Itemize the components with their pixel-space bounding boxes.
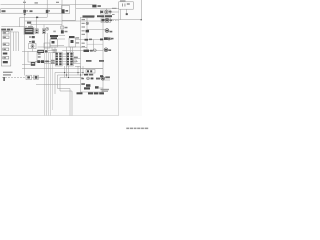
- C1 stub: [32, 49, 34, 52]
- connector pair B: [42, 29, 45, 34]
- fusible link box: [62, 6, 70, 14]
- tick on W-B wire: [24, 14, 26, 16]
- label FL: [66, 10, 69, 12]
- radio player box: [1, 31, 11, 66]
- connector on x62: [61, 26, 64, 29]
- connector strip B cells: [67, 53, 69, 55]
- dash x112 y7.8: [112, 8, 117, 9]
- wire label x75 y37: [76, 37, 80, 38]
- text x86 y60: [86, 60, 92, 62]
- wire heater dash: [110, 20, 119, 22]
- pressure sw inner box: [86, 70, 95, 74]
- amp1 output stubs: [52, 47, 55, 52]
- wire h y52.5: [48, 52, 55, 54]
- text right of compressor: [105, 76, 110, 78]
- note text row1: [3, 72, 13, 73]
- wire h y39.5: [76, 39, 113, 41]
- connector bottom of relay box: [31, 62, 35, 66]
- connector blob x61 y31: [61, 30, 64, 33]
- amp1 inner: [52, 41, 55, 44]
- blob x36 y16.5: [36, 17, 38, 19]
- bottom caption words: [126, 128, 129, 130]
- junction right: [141, 19, 143, 20]
- ecu blob: [25, 28, 34, 34]
- wire vertical right of FL: [62, 0, 76, 20]
- connector row y50-53: [37, 50, 44, 53]
- ground dot: [126, 13, 128, 15]
- connector box C1: [29, 44, 37, 49]
- capacitor core: [35, 76, 38, 79]
- a/c internal line y47.3: [81, 46, 88, 48]
- faint gray texts: [3, 2, 148, 129]
- radio inner box3: [3, 43, 9, 46]
- wire into relay box: [22, 51, 28, 53]
- a/c amp2 title: [69, 36, 75, 38]
- radio inner box5: [3, 57, 9, 60]
- a/c box header line: [81, 17, 95, 19]
- blob right edge of box: [100, 75, 103, 77]
- wire y12 right: [110, 11, 119, 13]
- heater row1 outline: [101, 10, 111, 14]
- motor in C1: [31, 45, 34, 48]
- diode D2: [32, 41, 35, 43]
- diode D1: [32, 36, 35, 38]
- fan motor M2: [105, 29, 109, 33]
- wire h y84.5: [36, 84, 81, 86]
- capacitor box outline: [34, 75, 39, 79]
- small box right: [73, 60, 76, 62]
- a/c amp no2 box: [69, 38, 76, 47]
- ignition relay box: [119, 2, 134, 9]
- wire horizontal y8.6: [76, 8, 119, 10]
- wire relay to bus: [120, 9, 122, 20]
- blower motor M1: [105, 18, 109, 22]
- connector box mid: [44, 43, 50, 48]
- fuse F3: [62, 9, 65, 13]
- label text x45 y60: [45, 61, 49, 63]
- a/c left labels: [82, 19, 86, 20]
- wire label top2: [35, 2, 38, 3]
- connector strip B outline: [66, 52, 73, 66]
- wire h y47: [38, 46, 81, 48]
- cluster y60-65 : c1: [41, 60, 44, 63]
- dash x112 y14: [112, 14, 115, 15]
- wire v x93.5: [93, 40, 95, 51]
- footnote marker: [3, 77, 4, 81]
- wire y66.3 stub: [75, 65, 81, 67]
- a/c control box right edge: [102, 15, 104, 92]
- wire v x36.5: [36, 17, 38, 28]
- wire top bus: [1, 4, 93, 6]
- caption text2: [88, 92, 93, 94]
- radio top stub wire: [11, 31, 19, 34]
- blob right edge y39: [100, 39, 103, 41]
- thermistor: [86, 84, 90, 87]
- marks right of relay box: [38, 53, 41, 55]
- register blob: [85, 39, 89, 41]
- cluster left blob: [37, 60, 40, 63]
- wire verticals bundle: [44, 53, 46, 116]
- wire h y35.5: [58, 35, 66, 37]
- blower sw text: [84, 50, 90, 52]
- wire h y39: [58, 38, 66, 40]
- relay contact ticks: [121, 4, 124, 7]
- labels left of strip A: [51, 60, 55, 62]
- wire h y17.3: [20, 16, 48, 18]
- thermo circle: [86, 22, 89, 25]
- wire vertical F3: [61, 0, 63, 33]
- wire v x66.5: [66, 47, 68, 65]
- marks x95 y86: [95, 86, 99, 88]
- connector strip A outline: [55, 52, 62, 66]
- a/c inner vertical: [86, 18, 88, 51]
- heater label text: [97, 15, 104, 17]
- wire y88 in box: [99, 87, 103, 89]
- wire h y63.5: [44, 63, 81, 65]
- wire v x44: [43, 25, 45, 29]
- label beside noise filter: [98, 5, 101, 7]
- ecu outline: [24, 28, 34, 35]
- wire label top3: [56, 2, 59, 3]
- radio player title: [1, 29, 6, 31]
- wire h y26.7: [1, 17, 27, 26]
- wire v x44.6 mid: [44, 33, 46, 50]
- fuse box FB1: [1, 9, 62, 14]
- fuse F2: [46, 10, 49, 13]
- heater relay row1: [100, 11, 103, 13]
- compressor circle: [101, 77, 105, 81]
- wire v x13.3: [12, 32, 14, 51]
- faint mark x53 y30: [53, 31, 56, 33]
- wire h y58.5: [73, 58, 80, 60]
- radio dark band2: [3, 61, 8, 63]
- label right of strip B: [74, 57, 78, 59]
- a/c control box left edge: [80, 17, 82, 92]
- wire h y68.5: [22, 68, 103, 70]
- label above ecu: [28, 26, 33, 27]
- wire vertical F2: [46, 0, 48, 17]
- wires between strips: [62, 54, 66, 64]
- label AM1: [30, 10, 33, 12]
- wire mesh h y77.5: [60, 78, 83, 116]
- wire v x16: [15, 32, 17, 51]
- noise filter box: [26, 75, 32, 79]
- blob beside pressure circle: [91, 78, 94, 80]
- wire v x31: [30, 21, 32, 28]
- text left of compressor: [96, 78, 100, 80]
- a/c internal line y44: [87, 43, 103, 45]
- connector strip A cells: [56, 53, 58, 55]
- radio inner box1: [3, 32, 9, 35]
- wire h y50.5: [48, 50, 103, 52]
- wire label top1: [23, 2, 26, 3]
- wire v x47.2 mid: [46, 33, 48, 50]
- wire v x18.7: [18, 32, 20, 51]
- heater row1 stub: [105, 9, 108, 11]
- fuse F1: [23, 10, 26, 13]
- label right of connectors: [65, 27, 68, 29]
- wire bottom frame: [0, 115, 119, 117]
- junction dots mesh: [64, 72, 65, 73]
- wire frame right: [118, 9, 120, 116]
- wire right bus: [103, 0, 141, 20]
- fuse F1 label: [2, 10, 6, 12]
- blower outline box: [101, 18, 111, 23]
- fan motor M3: [104, 48, 108, 52]
- text above box: [120, 0, 126, 1]
- wire y64.3: [22, 63, 31, 65]
- wire compressor h y80: [103, 79, 110, 81]
- pressure switch box bottom: [81, 69, 104, 93]
- wire mesh h y75: [58, 75, 84, 116]
- wire h y29.5: [87, 29, 105, 31]
- wire dash row y77: [2, 76, 26, 78]
- blower sw circle: [93, 49, 96, 52]
- a/c amp1 title: [50, 35, 58, 37]
- note text row2: [3, 74, 11, 75]
- caption text1: [77, 92, 83, 94]
- dark band under thermistor: [84, 87, 90, 89]
- servo motor: [104, 37, 108, 40]
- wire from relay to ground: [126, 9, 128, 14]
- text x81 y83: [81, 83, 85, 85]
- radio inner box4: [3, 48, 9, 51]
- amp2 output stubs: [71, 47, 73, 52]
- wire W-B vertical: [24, 0, 26, 76]
- label italic near compressor: [101, 89, 110, 90]
- connector pair A: [35, 29, 38, 34]
- wire h y61.5: [35, 61, 78, 63]
- resistor blob: [86, 30, 89, 33]
- pressure sw text row: [84, 74, 88, 76]
- radio dark band1: [3, 53, 8, 55]
- wire label x75 y42: [76, 42, 80, 43]
- pressure circle: [87, 77, 90, 80]
- text x81 y77.8: [81, 78, 84, 80]
- small bulb x47 y28: [46, 27, 49, 30]
- wire mesh verticals: [65, 66, 69, 78]
- a/c amp no1 box: [50, 40, 58, 48]
- blob x27 y21: [27, 22, 31, 24]
- gray labels on lines: [53, 49, 58, 50]
- noise filter core: [27, 76, 30, 78]
- wire h y21: [25, 20, 103, 22]
- wire h y45.5: [50, 45, 64, 47]
- wire mesh h y72.5: [55, 73, 83, 95]
- dark components: [1, 0, 142, 94]
- auto a/c title: [83, 15, 95, 17]
- amp2 inner: [71, 40, 74, 43]
- noise filter top: [92, 5, 96, 8]
- wire h y24.5: [31, 24, 62, 26]
- text x99 y60: [99, 60, 104, 62]
- relay box center-left: [28, 52, 37, 63]
- radio inner box2: [3, 36, 9, 39]
